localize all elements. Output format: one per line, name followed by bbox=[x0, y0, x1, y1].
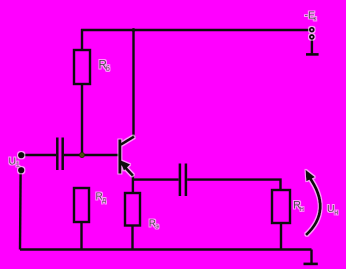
wire capacitor to base bbox=[64, 154, 119, 156]
label Re bbox=[149, 218, 160, 230]
wire Rn bottom lead bbox=[280, 223, 282, 250]
output arc arrowhead bbox=[306, 170, 315, 182]
output voltage arc arrow bbox=[306, 177, 320, 236]
wire Rb bottom lead bbox=[81, 84, 83, 155]
resistor Rd bbox=[74, 188, 89, 222]
transistor VT1 emitter arrow (PNP) bbox=[120, 160, 130, 171]
terminal -Ek top bbox=[310, 28, 314, 32]
transistor VT1 collector diagonal bbox=[121, 137, 134, 145]
node base junction bbox=[80, 153, 85, 158]
transistor VT1 base bar bbox=[118, 140, 121, 174]
wire Ek terminal to chassis bbox=[311, 40, 313, 54]
wire Re bottom lead bbox=[131, 226, 133, 250]
wire input bottom lead bbox=[19, 173, 22, 250]
wire input to capacitor bbox=[24, 154, 56, 156]
label Un output bbox=[327, 203, 338, 216]
node collector-rail junction bbox=[132, 28, 136, 32]
terminal input bottom bbox=[19, 168, 24, 173]
resistor Re bbox=[125, 193, 140, 226]
label U1 input bbox=[9, 155, 20, 168]
label Rn bbox=[293, 200, 304, 213]
capacitor C1 bbox=[57, 138, 62, 171]
svg-text:э: э bbox=[155, 224, 159, 231]
wire Rd bottom lead bbox=[80, 222, 82, 250]
wire collector to top rail bbox=[132, 30, 134, 138]
wire capacitor to Rn bbox=[187, 180, 280, 190]
svg-text:д: д bbox=[102, 197, 106, 204]
terminal -Ek bottom bbox=[310, 35, 314, 39]
label Rb bbox=[99, 60, 110, 74]
resistor Rb bbox=[74, 50, 90, 84]
chassis terminal bottom right bbox=[304, 263, 318, 266]
svg-text:н: н bbox=[300, 206, 304, 213]
label -Ek bbox=[305, 10, 317, 23]
transistor VT1 emitter diagonal bbox=[121, 163, 133, 176]
svg-text:к: к bbox=[313, 16, 316, 23]
wire top rail bbox=[81, 29, 309, 31]
wire bottom rail bbox=[20, 248, 312, 250]
chassis terminal top right bbox=[306, 53, 319, 56]
resistor Rn bbox=[272, 190, 290, 223]
svg-text:б: б bbox=[106, 64, 110, 73]
wire emitter to output capacitor bbox=[133, 178, 179, 180]
wire bottom rail to chassis bbox=[310, 250, 312, 264]
svg-text:н: н bbox=[334, 209, 338, 216]
svg-text:1: 1 bbox=[16, 162, 20, 169]
wire emitter to Re bbox=[132, 175, 134, 193]
capacitor C2 bbox=[180, 164, 186, 197]
wire Rb top lead bbox=[81, 29, 83, 50]
terminal input top bbox=[19, 153, 24, 158]
label Rd bbox=[96, 192, 107, 204]
